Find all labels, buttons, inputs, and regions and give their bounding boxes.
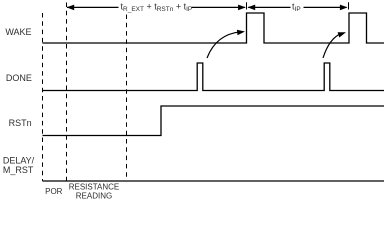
dashed reference line at POR end / resistance reading start [66,3,68,182]
svg-text:READING: READING [76,191,112,200]
svg-text:WAKE: WAKE [5,27,31,37]
svg-text:M_RST: M_RST [3,165,34,175]
svg-text:RESISTANCE: RESISTANCE [69,183,120,192]
curved arrow from DONE pulse 1 to WAKE pulse 1 [207,32,241,58]
DONE signal waveform [43,63,385,91]
dashed reference line at resistance reading end [126,15,128,182]
dimension line tIP [248,6,346,8]
dimension line tR_EXT+tRSTn+tIP [67,6,245,8]
curved arrow from DONE pulse 2 to WAKE pulse 2 [323,33,342,58]
svg-text:RSTn: RSTn [9,118,32,128]
svg-text:DONE: DONE [6,73,32,83]
svg-text:POR: POR [45,187,63,196]
RSTn signal waveform [43,106,385,136]
WAKE signal waveform [43,13,385,43]
extension tick above WAKE pulse 2 rising edge [348,2,350,9]
dashed reference line at POR start [42,13,44,181]
DELAY/M_RST signal waveform [43,180,385,182]
extension tick above WAKE pulse 1 rising edge [246,2,248,9]
